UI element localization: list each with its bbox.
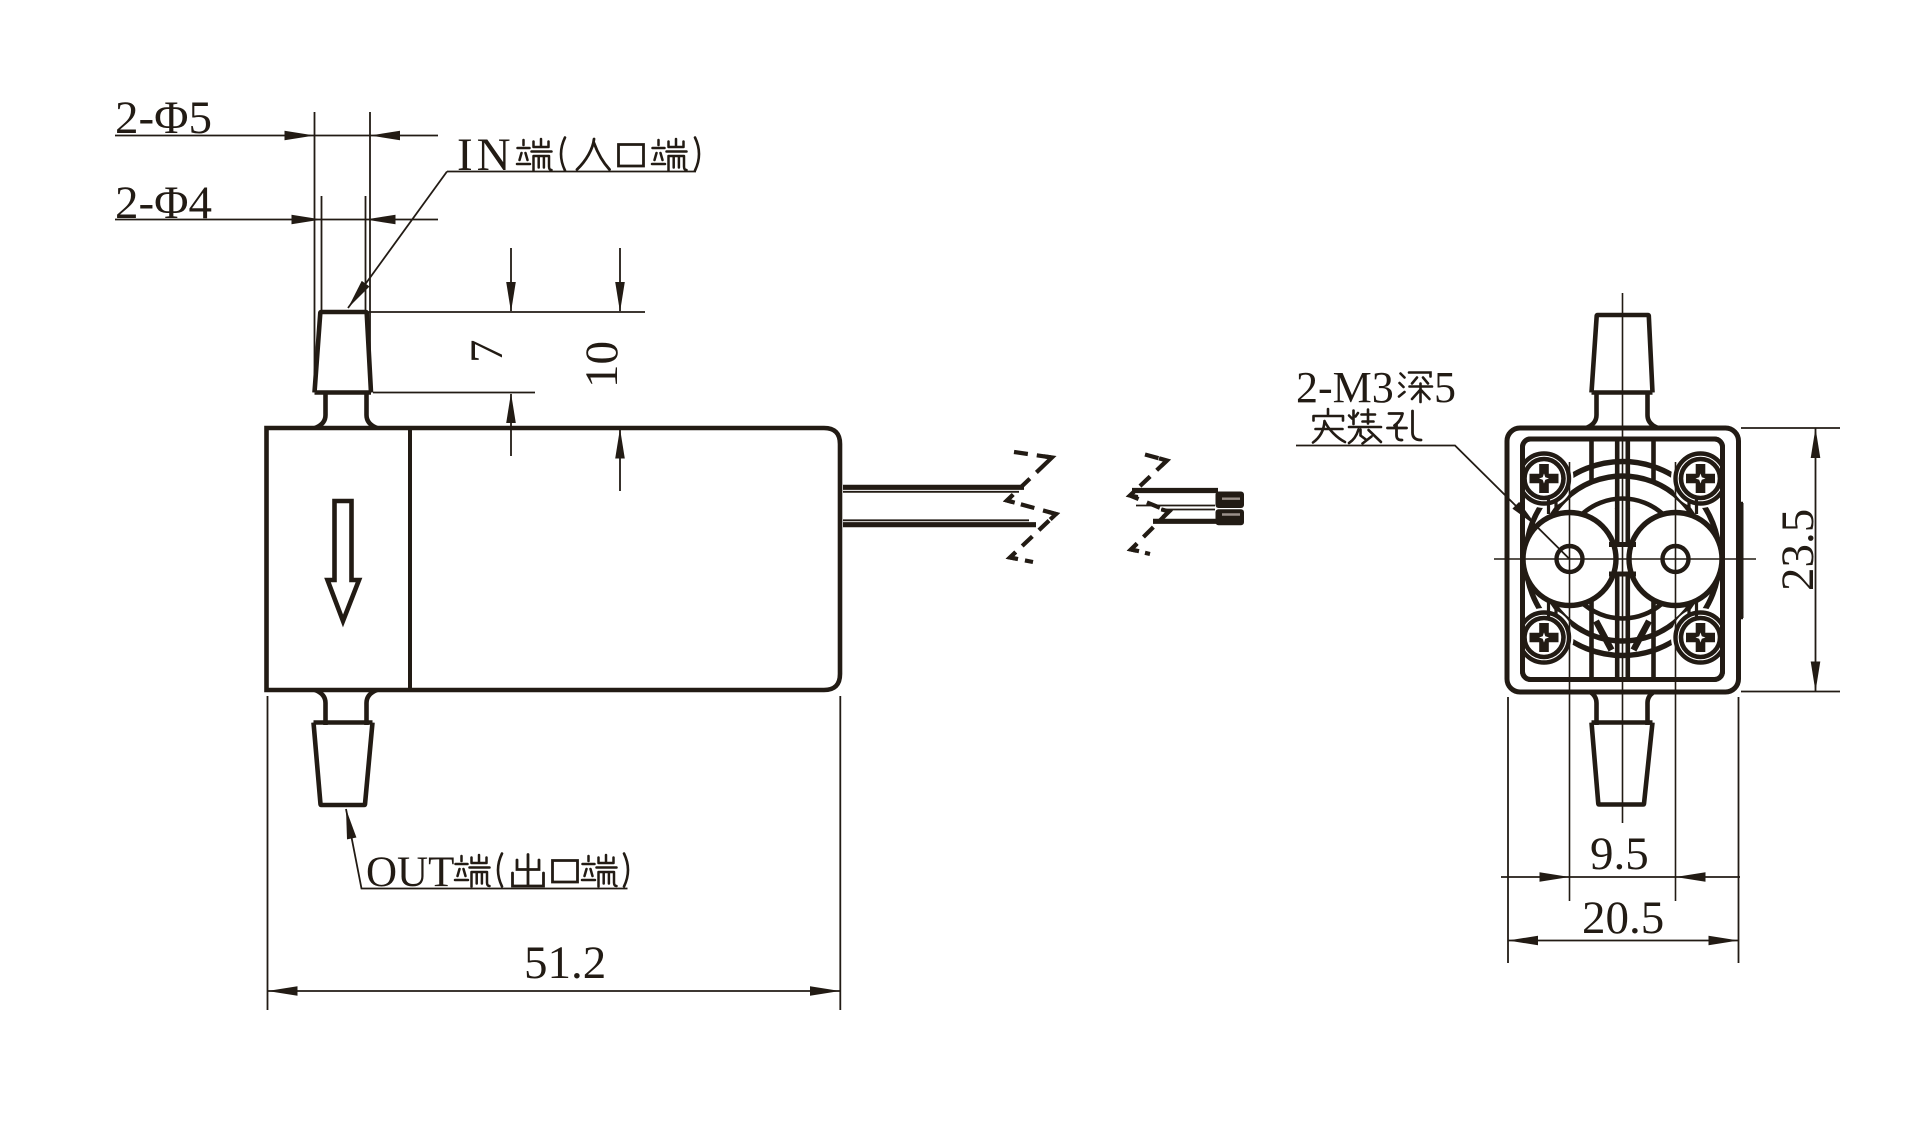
- svg-text:IN: IN: [457, 129, 515, 181]
- svg-text:9.5: 9.5: [1590, 828, 1649, 880]
- svg-text:10: 10: [576, 341, 628, 388]
- svg-text:2-Φ5: 2-Φ5: [115, 92, 212, 144]
- svg-text:20.5: 20.5: [1582, 892, 1664, 944]
- svg-text:23.5: 23.5: [1772, 509, 1824, 591]
- svg-text:2-M3: 2-M3: [1296, 363, 1394, 412]
- svg-text:7: 7: [461, 340, 513, 364]
- svg-text:2-Φ4: 2-Φ4: [115, 177, 212, 229]
- svg-text:OUT: OUT: [366, 849, 454, 896]
- svg-text:5: 5: [1434, 363, 1456, 412]
- svg-text:51.2: 51.2: [524, 937, 606, 989]
